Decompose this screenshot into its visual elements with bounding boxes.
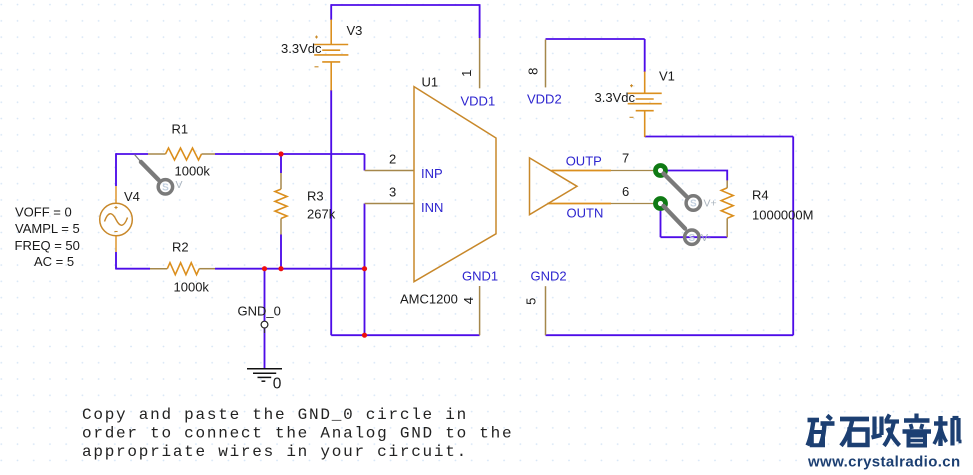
svg-text:S: S <box>162 182 169 193</box>
svg-text:VDD1: VDD1 <box>461 94 496 109</box>
svg-text:V3: V3 <box>347 23 363 38</box>
svg-text:INN: INN <box>421 200 443 215</box>
svg-text:AMC1200: AMC1200 <box>400 292 458 307</box>
svg-text:7: 7 <box>622 151 629 166</box>
svg-text:S: S <box>688 233 695 244</box>
svg-text:www.crystalradio.cn: www.crystalradio.cn <box>807 453 961 470</box>
svg-text:3: 3 <box>389 185 396 200</box>
svg-text:VOFF = 0: VOFF = 0 <box>15 205 72 220</box>
svg-text:R4: R4 <box>752 188 769 203</box>
svg-text:6: 6 <box>622 184 629 199</box>
svg-text:3.3Vdc: 3.3Vdc <box>595 90 636 105</box>
svg-text:V1: V1 <box>659 69 675 84</box>
svg-text:U1: U1 <box>422 75 439 90</box>
svg-text:V+: V+ <box>704 198 717 210</box>
svg-text:appropriate wires in your circ: appropriate wires in your circuit. <box>82 443 468 461</box>
svg-text:V: V <box>176 179 183 191</box>
svg-text:order to connect the Analog GN: order to connect the Analog GND to the <box>82 425 513 443</box>
svg-text:AC = 5: AC = 5 <box>34 254 74 269</box>
svg-text:INP: INP <box>421 166 443 181</box>
svg-text:1000000M: 1000000M <box>752 208 813 223</box>
svg-text:8: 8 <box>526 68 541 75</box>
svg-text:R2: R2 <box>172 240 189 255</box>
svg-text:GND_0: GND_0 <box>238 304 281 319</box>
svg-text:Copy and paste the GND_0 circl: Copy and paste the GND_0 circle in <box>82 406 468 424</box>
svg-text:1000k: 1000k <box>174 280 210 295</box>
svg-text:1000k: 1000k <box>175 164 211 179</box>
svg-text:3.3Vdc: 3.3Vdc <box>281 41 322 56</box>
svg-text:VDD2: VDD2 <box>527 92 562 107</box>
svg-text:V-: V- <box>701 232 711 244</box>
svg-text:OUTP: OUTP <box>566 153 602 168</box>
svg-text:V4: V4 <box>124 189 140 204</box>
svg-text:R3: R3 <box>307 189 324 204</box>
svg-text:0: 0 <box>273 376 282 393</box>
svg-text:VAMPL = 5: VAMPL = 5 <box>15 221 80 236</box>
svg-text:267k: 267k <box>307 207 336 222</box>
svg-text:1: 1 <box>459 70 474 77</box>
svg-text:GND1: GND1 <box>462 269 498 284</box>
svg-text:GND2: GND2 <box>531 269 567 284</box>
svg-text:5: 5 <box>523 298 538 305</box>
svg-text:OUTN: OUTN <box>567 206 604 221</box>
svg-text:FREQ = 50: FREQ = 50 <box>15 238 80 253</box>
svg-text:4: 4 <box>461 297 476 304</box>
svg-text:2: 2 <box>389 152 396 167</box>
svg-text:S: S <box>690 199 697 210</box>
svg-text:R1: R1 <box>172 122 189 137</box>
